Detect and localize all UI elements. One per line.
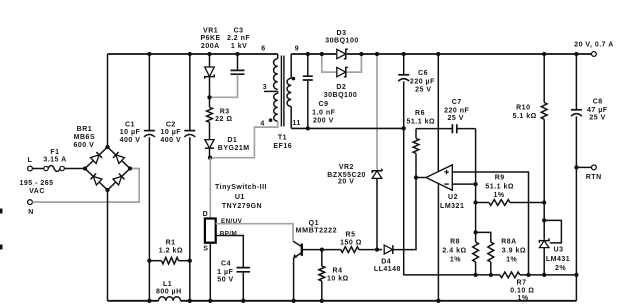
- svg-text:U3: U3: [554, 246, 564, 253]
- svg-text:R10: R10: [516, 105, 530, 112]
- svg-text:22 Ω: 22 Ω: [215, 116, 232, 123]
- svg-text:1%: 1%: [450, 257, 461, 264]
- svg-text:3: 3: [263, 84, 267, 91]
- svg-text:R4: R4: [333, 267, 343, 274]
- svg-text:200 V: 200 V: [313, 118, 334, 125]
- svg-text:1 kV: 1 kV: [231, 43, 247, 50]
- svg-text:L1: L1: [163, 281, 172, 288]
- svg-text:N: N: [28, 209, 34, 216]
- svg-text:RTN: RTN: [586, 174, 602, 181]
- svg-text:C1: C1: [125, 121, 135, 128]
- svg-text:3.9 kΩ: 3.9 kΩ: [502, 248, 526, 255]
- svg-text:BR1: BR1: [77, 126, 93, 133]
- svg-text:150 Ω: 150 Ω: [340, 240, 362, 247]
- svg-text:C2: C2: [166, 121, 176, 128]
- svg-text:1.2 kΩ: 1.2 kΩ: [159, 247, 183, 254]
- svg-text:800 µH: 800 µH: [156, 289, 182, 296]
- svg-text:9: 9: [295, 46, 299, 53]
- svg-text:2.2 nF: 2.2 nF: [227, 35, 250, 42]
- svg-text:2.4 kΩ: 2.4 kΩ: [442, 248, 466, 255]
- svg-text:LM321: LM321: [440, 203, 464, 210]
- svg-text:2%: 2%: [555, 265, 566, 272]
- svg-text:VR2: VR2: [339, 164, 354, 171]
- svg-text:30BQ100: 30BQ100: [325, 37, 358, 44]
- svg-text:EF16: EF16: [273, 143, 292, 150]
- svg-text:1%: 1%: [517, 295, 528, 302]
- svg-text:F1: F1: [50, 149, 59, 156]
- svg-text:R1: R1: [166, 240, 176, 247]
- svg-text:R9: R9: [495, 175, 505, 182]
- svg-text:200A: 200A: [201, 43, 220, 50]
- svg-text:6: 6: [261, 46, 265, 53]
- svg-text:C7: C7: [452, 99, 462, 106]
- svg-text:30BQ100: 30BQ100: [324, 92, 357, 99]
- svg-text:R5: R5: [346, 232, 356, 239]
- svg-text:MMBT2222: MMBT2222: [296, 226, 338, 235]
- svg-text:220 nF: 220 nF: [444, 107, 469, 114]
- svg-text:TNY279GN: TNY279GN: [222, 203, 262, 210]
- svg-text:25 V: 25 V: [415, 87, 431, 94]
- svg-text:C3: C3: [234, 27, 244, 34]
- svg-text:3.15 A: 3.15 A: [43, 156, 66, 163]
- svg-text:25 V: 25 V: [589, 114, 605, 121]
- svg-text:S: S: [203, 246, 208, 253]
- svg-text:R6: R6: [415, 110, 425, 117]
- svg-text:0.10 Ω: 0.10 Ω: [510, 288, 534, 295]
- svg-text:R7: R7: [517, 280, 527, 287]
- svg-text:R8A: R8A: [501, 239, 517, 246]
- svg-text:TinySwitch-III: TinySwitch-III: [215, 184, 267, 191]
- svg-text:C8: C8: [593, 99, 603, 106]
- svg-text:51.1 kΩ: 51.1 kΩ: [485, 183, 514, 190]
- svg-text:50 V: 50 V: [217, 276, 233, 283]
- svg-text:195 - 265: 195 - 265: [19, 180, 53, 187]
- svg-text:1%: 1%: [493, 192, 504, 199]
- svg-text:220 µF: 220 µF: [410, 79, 435, 86]
- svg-text:C6: C6: [418, 70, 428, 77]
- svg-text:LL4148: LL4148: [374, 266, 401, 273]
- svg-text:1.0 nF: 1.0 nF: [312, 109, 335, 116]
- svg-text:10 µF: 10 µF: [161, 129, 182, 136]
- svg-text:D2: D2: [336, 84, 346, 91]
- svg-text:C9: C9: [319, 101, 329, 108]
- svg-text:D: D: [203, 211, 209, 218]
- svg-text:25 V: 25 V: [447, 115, 463, 122]
- svg-text:10 kΩ: 10 kΩ: [327, 275, 349, 282]
- svg-text:U2: U2: [448, 194, 458, 201]
- svg-text:D3: D3: [337, 30, 347, 37]
- svg-text:C4: C4: [221, 261, 231, 268]
- svg-text:10 µF: 10 µF: [120, 129, 141, 136]
- svg-text:20 V: 20 V: [338, 179, 354, 186]
- svg-text:L: L: [28, 157, 33, 164]
- svg-text:11: 11: [292, 120, 300, 127]
- svg-text:D4: D4: [381, 258, 391, 265]
- svg-text:1%: 1%: [506, 257, 517, 264]
- svg-text:EN/UV: EN/UV: [221, 218, 243, 225]
- svg-text:LM431: LM431: [546, 256, 570, 263]
- svg-text:600 V: 600 V: [74, 142, 95, 149]
- svg-text:P6KE: P6KE: [200, 35, 220, 42]
- svg-text:47 µF: 47 µF: [587, 107, 608, 114]
- svg-text:5.1 kΩ: 5.1 kΩ: [513, 113, 537, 120]
- svg-text:400 V: 400 V: [120, 137, 141, 144]
- svg-text:51.1 kΩ: 51.1 kΩ: [407, 118, 436, 125]
- svg-text:BP/M: BP/M: [220, 231, 237, 238]
- svg-text:VAC: VAC: [29, 188, 45, 195]
- svg-text:T1: T1: [278, 135, 287, 142]
- svg-text:BYG21M: BYG21M: [218, 145, 250, 152]
- svg-text:R3: R3: [220, 108, 230, 115]
- svg-text:20 V, 0.7 A: 20 V, 0.7 A: [574, 42, 614, 49]
- svg-text:1 µF: 1 µF: [217, 269, 233, 276]
- svg-text:R8: R8: [450, 239, 460, 246]
- svg-text:VR1: VR1: [203, 27, 218, 34]
- svg-text:4: 4: [260, 120, 264, 127]
- svg-text:MB6S: MB6S: [74, 134, 95, 141]
- svg-text:400 V: 400 V: [160, 137, 181, 144]
- svg-text:U1: U1: [235, 194, 245, 201]
- svg-text:D1: D1: [227, 137, 237, 144]
